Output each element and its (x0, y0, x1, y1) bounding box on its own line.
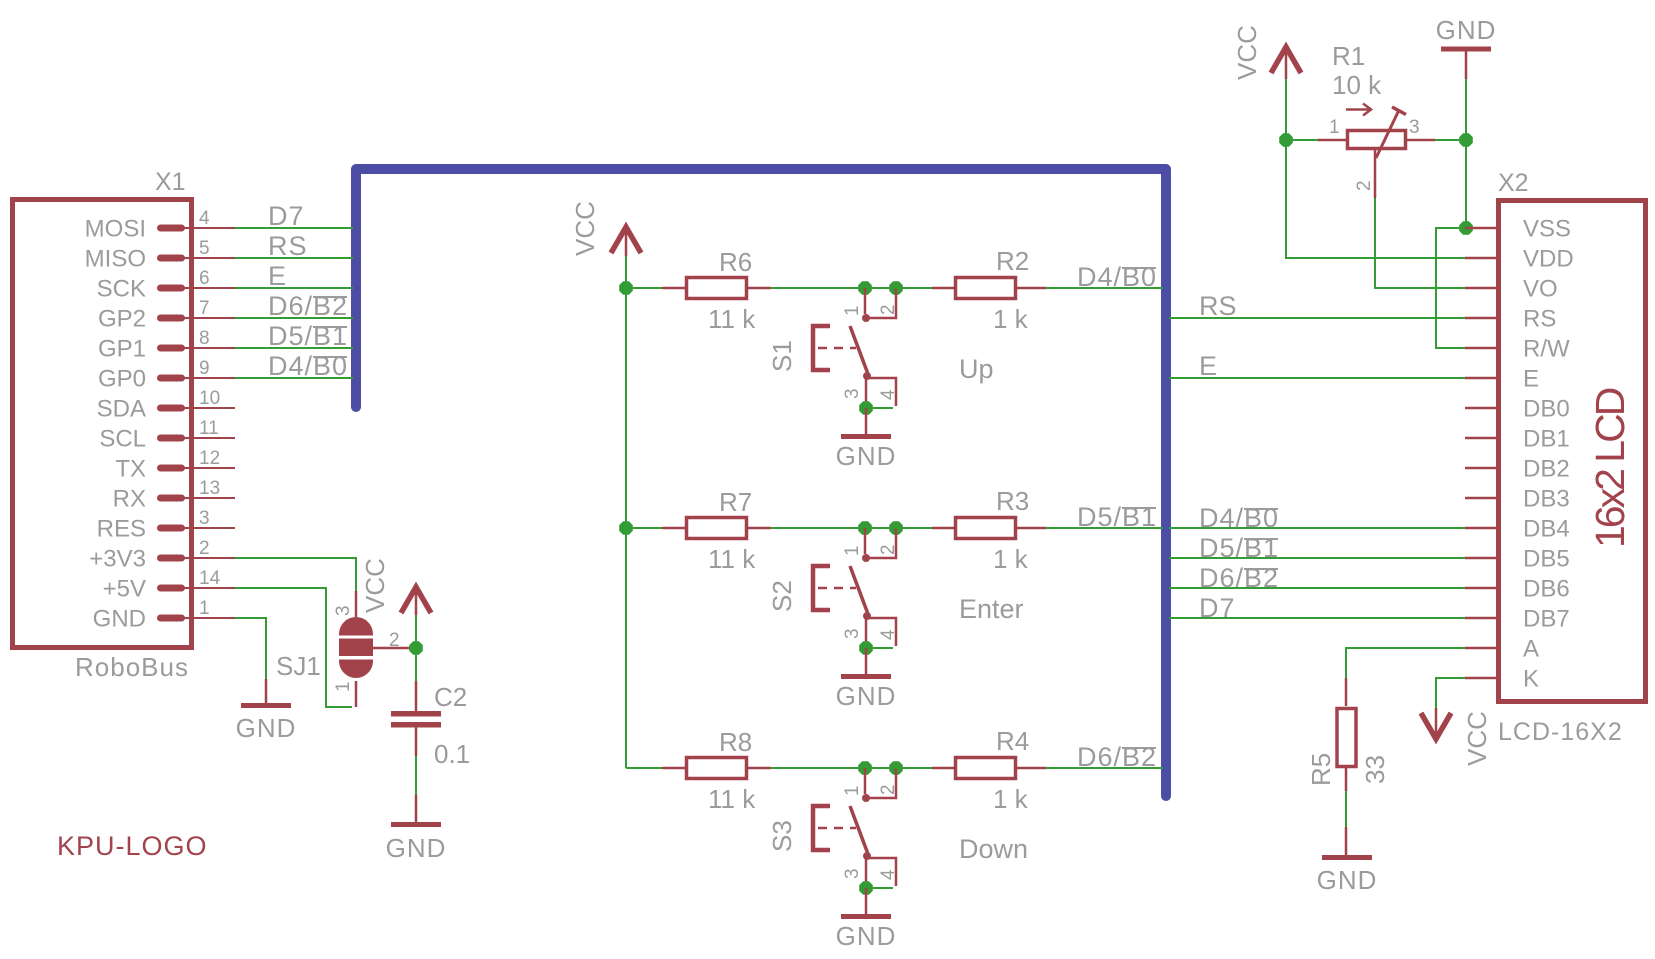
svg-text:3: 3 (1409, 117, 1420, 138)
svg-text:11 k: 11 k (708, 544, 756, 574)
wire node to C2 (415, 648, 417, 681)
junction node below S2 (859, 641, 873, 655)
wire R2 to bus net D4/B0 (1046, 287, 1163, 289)
svg-text:R8: R8 (719, 727, 752, 757)
svg-text:E: E (1199, 351, 1217, 381)
svg-text:13: 13 (199, 478, 220, 499)
wire +3V3 to SJ1 pin 3 (235, 558, 356, 591)
junction node at SJ1/C2 (409, 641, 423, 655)
ground symbol (C2) (386, 795, 447, 863)
value 0.1 of C2 (434, 739, 470, 769)
svg-text:1: 1 (842, 785, 863, 796)
switch S3 (813, 768, 896, 888)
junction node at S1 pin 2 (889, 281, 903, 295)
svg-text:16x2 LCD: 16x2 LCD (1587, 388, 1633, 548)
pin DB2 (X2) (1465, 456, 1570, 483)
power symbol VCC (button rail) (570, 201, 641, 256)
svg-text:RX: RX (113, 486, 146, 513)
wire R1 pin 3 to GND net (1435, 139, 1466, 141)
potentiometer R1 (1318, 104, 1435, 199)
wire VSS to R/W (1436, 228, 1466, 348)
label R4 (996, 726, 1029, 756)
svg-text:GND: GND (386, 833, 447, 863)
wire net E (235, 287, 353, 289)
svg-text:GND: GND (93, 606, 146, 633)
svg-text:2: 2 (878, 304, 899, 315)
value 11 k of R7 (708, 544, 756, 574)
svg-text:S2: S2 (767, 580, 797, 612)
svg-text:X1: X1 (155, 168, 186, 196)
switch S1 (813, 288, 896, 408)
svg-text:1: 1 (1329, 117, 1340, 138)
svg-text:D5/B1: D5/B1 (1077, 502, 1157, 532)
label C2 (434, 682, 467, 712)
switch S2 (813, 528, 896, 648)
svg-text:10: 10 (199, 388, 220, 409)
svg-text:3: 3 (333, 605, 354, 616)
svg-text:D6/B2: D6/B2 (1199, 563, 1279, 593)
label Enter (959, 594, 1024, 624)
power symbol VCC (contrast) (1232, 25, 1301, 80)
svg-text:2: 2 (878, 544, 899, 555)
pin K (X2) (1465, 666, 1539, 693)
svg-text:D7: D7 (268, 201, 305, 231)
pin DB3 (X2) (1465, 486, 1570, 513)
wire R5 to ground (1345, 791, 1347, 827)
resistor R7 (662, 518, 771, 539)
svg-text:DB1: DB1 (1523, 426, 1570, 453)
svg-text:LCD-16X2: LCD-16X2 (1498, 718, 1623, 746)
svg-text:9: 9 (199, 358, 210, 379)
svg-text:1: 1 (842, 545, 863, 556)
pin number 3 of S3 (842, 868, 863, 879)
svg-text:D6/B2: D6/B2 (1077, 742, 1157, 772)
pin VSS (X2) (1465, 216, 1571, 243)
wire net E (bus to LCD) (1169, 377, 1465, 379)
svg-text:TX: TX (115, 456, 146, 483)
svg-text:Down: Down (959, 834, 1028, 864)
label RoboBus (75, 652, 189, 682)
value 33 of R5 (1360, 755, 1390, 784)
pin RX (X1 pin 13) (113, 478, 235, 513)
pin number 1 of S1 (842, 305, 863, 316)
ground symbol (S1) (836, 408, 897, 471)
wire net RS (bus to LCD) (1169, 317, 1465, 319)
svg-text:3: 3 (842, 628, 863, 639)
text KPU-LOGO (57, 831, 208, 861)
wire VCC rail vertical (625, 288, 627, 768)
bus net (blue) (356, 169, 1166, 796)
svg-text:0.1: 0.1 (434, 739, 470, 769)
wire net D7 (235, 227, 353, 229)
svg-text:MOSI: MOSI (85, 216, 146, 243)
net label D7 at LCD (1199, 593, 1236, 623)
junction node at S2 pin 2 (889, 521, 903, 535)
svg-text:8: 8 (199, 328, 210, 349)
resistor R6 (662, 278, 771, 299)
svg-text:MISO: MISO (85, 246, 146, 273)
junction node at S3 pin 1 (858, 761, 872, 775)
pin MOSI (X1 pin 4) (85, 208, 235, 243)
net label D5/B1 (268, 321, 348, 351)
net label RS (1199, 291, 1237, 321)
svg-text:SCK: SCK (97, 276, 146, 303)
wire VCC to VDD (1286, 140, 1465, 258)
wire rail to R8 (626, 767, 662, 769)
svg-text:DB3: DB3 (1523, 486, 1570, 513)
net label E (268, 261, 287, 291)
label SJ1 (276, 651, 321, 681)
label R1 (1332, 41, 1365, 71)
label R7 (719, 487, 752, 517)
wire switch to R3 (896, 527, 932, 529)
svg-text:4: 4 (878, 629, 899, 640)
pin SDA (X1 pin 10) (97, 388, 235, 423)
label R5 (1306, 753, 1336, 786)
svg-text:14: 14 (199, 568, 221, 589)
resistor R2 (932, 278, 1046, 299)
svg-text:Up: Up (959, 354, 994, 384)
pin MISO (X1 pin 5) (85, 238, 235, 273)
svg-text:R1: R1 (1332, 41, 1365, 71)
junction node R1 pin 1 (1279, 133, 1293, 147)
svg-text:E: E (1523, 366, 1539, 393)
svg-text:VO: VO (1523, 276, 1558, 303)
wire switch to R4 (896, 767, 932, 769)
svg-text:GND: GND (836, 681, 897, 711)
value 11 k of R8 (708, 784, 756, 814)
pin number 4 of S3 (878, 869, 899, 880)
svg-text:3: 3 (842, 388, 863, 399)
pin number 3 of R1 (1409, 117, 1420, 138)
pin number 2 of S2 (878, 544, 899, 555)
wire switch to R2 (896, 287, 932, 289)
svg-text:4: 4 (199, 208, 210, 229)
label Up (959, 354, 994, 384)
pin RES (X1 pin 3) (97, 508, 235, 543)
svg-text:R5: R5 (1306, 753, 1336, 786)
wire K to VCC (1436, 678, 1465, 708)
svg-text:R/W: R/W (1523, 336, 1570, 363)
net label D4/B0 (1077, 262, 1157, 292)
junction node at S3 pin 2 (889, 761, 903, 775)
value 10 k of R1 (1332, 70, 1382, 100)
junction node VSS (1459, 221, 1473, 235)
pin GP1 (X1 pin 8) (98, 328, 235, 363)
power symbol VCC (backlight, pointing down) (1421, 708, 1492, 766)
svg-text:R4: R4 (996, 726, 1029, 756)
pin R/W (X2) (1465, 336, 1570, 363)
junction node rail row 2 (619, 521, 633, 535)
net label D4/B0 (268, 351, 348, 381)
svg-text:S1: S1 (767, 340, 797, 372)
connector X2 (16x2 LCD) (1499, 201, 1646, 702)
svg-text:SCL: SCL (99, 426, 146, 453)
label 16x2 LCD (1587, 388, 1633, 548)
power symbol VCC at SJ1 (360, 558, 431, 615)
svg-text:VCC: VCC (1232, 25, 1262, 80)
pin TX (X1 pin 12) (115, 448, 235, 483)
pin DB5 (X2) (1465, 546, 1570, 573)
svg-text:RS: RS (268, 231, 308, 261)
label R2 (996, 246, 1029, 276)
svg-text:+3V3: +3V3 (89, 546, 146, 573)
value 1 k of R4 (993, 784, 1029, 814)
pin number 1 of S3 (842, 785, 863, 796)
pin number 4 of S1 (878, 389, 899, 400)
svg-text:Enter: Enter (959, 594, 1024, 624)
label R6 (719, 247, 752, 277)
label R3 (996, 486, 1029, 516)
pin DB1 (X2) (1465, 426, 1570, 453)
svg-text:2: 2 (878, 784, 899, 795)
wire C2 to ground (415, 756, 417, 795)
value 1 k of R3 (993, 544, 1029, 574)
junction node below S3 (859, 881, 873, 895)
capacitor C2 (391, 681, 441, 756)
pin DB6 (X2) (1465, 576, 1570, 603)
svg-text:3: 3 (842, 868, 863, 879)
pin number 3 of SJ1 (333, 605, 354, 616)
pin VO (X2) (1465, 276, 1558, 303)
connector X1 (RoboBus) (13, 200, 192, 648)
junction node at S2 pin 1 (858, 521, 872, 535)
junction node GND net (1459, 133, 1473, 147)
svg-text:K: K (1523, 666, 1539, 693)
svg-text:R7: R7 (719, 487, 752, 517)
svg-text:GND: GND (1436, 15, 1497, 45)
svg-text:2: 2 (389, 630, 400, 651)
svg-text:SJ1: SJ1 (276, 651, 321, 681)
wire net D4/B0 (bus to LCD) (1169, 527, 1465, 529)
svg-text:D7: D7 (1199, 593, 1236, 623)
wire R3 to bus net D5/B1 (1046, 527, 1163, 529)
svg-text:RoboBus: RoboBus (75, 652, 189, 682)
wire R1 wiper to VO (1375, 198, 1465, 288)
svg-text:4: 4 (878, 869, 899, 880)
svg-text:DB0: DB0 (1523, 396, 1570, 423)
wire GND net to VSS (1465, 140, 1467, 228)
pin GND (X1 pin 1) (93, 598, 235, 633)
wire GND pin to ground symbol (235, 618, 266, 679)
pin DB4 (X2) (1465, 516, 1570, 543)
svg-text:VCC: VCC (360, 558, 390, 613)
wire VCC to node (415, 615, 417, 648)
svg-text:6: 6 (199, 268, 210, 289)
label X2 (1498, 169, 1529, 197)
net label D6/B2 (268, 291, 348, 321)
wire VCC arrow to rail (625, 256, 627, 288)
pin GP2 (X1 pin 7) (98, 298, 235, 333)
svg-text:VCC: VCC (570, 201, 600, 256)
wire net D5/B1 (bus to LCD) (1169, 557, 1465, 559)
resistor R3 (932, 518, 1046, 539)
junction node at S1 pin 1 (858, 281, 872, 295)
pin number 1 of SJ1 (333, 681, 354, 692)
svg-text:KPU-LOGO: KPU-LOGO (57, 831, 208, 861)
wire net D5/B1 (235, 347, 353, 349)
svg-text:+5V: +5V (103, 576, 146, 603)
svg-text:D5/B1: D5/B1 (1199, 533, 1279, 563)
svg-text:2: 2 (1354, 180, 1375, 191)
pin number 2 of R1 (1354, 180, 1375, 191)
svg-text:1 k: 1 k (993, 304, 1029, 334)
wire net D6/B2 (235, 317, 353, 319)
wire net D4/B0 (235, 377, 353, 379)
svg-text:1: 1 (842, 305, 863, 316)
svg-text:RS: RS (1199, 291, 1237, 321)
svg-text:R6: R6 (719, 247, 752, 277)
svg-text:DB6: DB6 (1523, 576, 1570, 603)
ground symbol (R5) (1317, 827, 1378, 895)
wire rail to R6 (626, 287, 662, 289)
label S3 (767, 820, 797, 852)
svg-text:DB4: DB4 (1523, 516, 1570, 543)
svg-text:R3: R3 (996, 486, 1029, 516)
label Down (959, 834, 1028, 864)
svg-text:DB2: DB2 (1523, 456, 1570, 483)
wire net RS (235, 257, 353, 259)
wire R4 to bus net D6/B2 (1046, 767, 1163, 769)
pin DB7 (X2) (1465, 606, 1570, 633)
svg-text:C2: C2 (434, 682, 467, 712)
svg-text:GND: GND (836, 441, 897, 471)
svg-text:11 k: 11 k (708, 304, 756, 334)
svg-text:1 k: 1 k (993, 544, 1029, 574)
svg-text:DB7: DB7 (1523, 606, 1570, 633)
svg-text:R2: R2 (996, 246, 1029, 276)
solder jumper SJ1 (339, 591, 416, 707)
svg-text:RS: RS (1523, 306, 1556, 333)
pin number 3 of S2 (842, 628, 863, 639)
svg-text:11: 11 (199, 418, 219, 439)
junction node rail row 1 (619, 281, 633, 295)
net label D6/B2 at LCD (1199, 563, 1279, 593)
svg-text:1 k: 1 k (993, 784, 1029, 814)
pin SCL (X1 pin 11) (99, 418, 235, 453)
svg-text:GP0: GP0 (98, 366, 146, 393)
ground symbol (top right) (1436, 15, 1497, 79)
svg-text:4: 4 (878, 389, 899, 400)
wire A to R5 (1346, 648, 1465, 678)
net label D5/B1 (1077, 502, 1157, 532)
label X1 (155, 168, 186, 196)
svg-text:S3: S3 (767, 820, 797, 852)
wire R6 to switch S1 (771, 287, 896, 289)
pin RS (X2) (1465, 306, 1556, 333)
ground symbol (S3) (836, 888, 897, 951)
label R8 (719, 727, 752, 757)
wire S3 pin 4 jumper (866, 887, 893, 889)
pin number 3 of S1 (842, 388, 863, 399)
net label D6/B2 (1077, 742, 1157, 772)
wire +5V to SJ1 pin 1 (235, 588, 352, 707)
svg-text:33: 33 (1360, 755, 1390, 784)
ground symbol (X1 GND) (236, 679, 297, 743)
net label D7 (268, 201, 305, 231)
pin DB0 (X2) (1465, 396, 1570, 423)
resistor R8 (662, 758, 771, 779)
svg-text:GND: GND (836, 921, 897, 951)
wire net D6/B2 (bus to LCD) (1169, 587, 1465, 589)
svg-text:RES: RES (97, 516, 146, 543)
junction node below S1 (859, 401, 873, 415)
pin +5V (X1 pin 14) (103, 568, 235, 603)
label LCD-16X2 (1498, 718, 1623, 746)
pin number 2 of S1 (878, 304, 899, 315)
pin E (X2) (1465, 366, 1539, 393)
value 1 k of R2 (993, 304, 1029, 334)
svg-text:D4/B0: D4/B0 (1199, 503, 1279, 533)
svg-text:A: A (1523, 636, 1539, 663)
ground symbol (S2) (836, 648, 897, 711)
pin SCK (X1 pin 6) (97, 268, 235, 303)
svg-text:D4/B0: D4/B0 (268, 351, 348, 381)
svg-text:1: 1 (333, 681, 354, 692)
label S2 (767, 580, 797, 612)
svg-text:VSS: VSS (1523, 216, 1571, 243)
net label D5/B1 at LCD (1199, 533, 1279, 563)
svg-text:D5/B1: D5/B1 (268, 321, 348, 351)
svg-text:2: 2 (199, 538, 210, 559)
svg-text:DB5: DB5 (1523, 546, 1570, 573)
wire VCC to R1 pin 1 (1286, 79, 1318, 140)
svg-text:12: 12 (199, 448, 220, 469)
resistor R5 (1337, 678, 1356, 791)
pin number 1 of S2 (842, 545, 863, 556)
svg-text:GP1: GP1 (98, 336, 146, 363)
net label E (1199, 351, 1217, 381)
pin GP0 (X1 pin 9) (98, 358, 235, 393)
svg-text:VCC: VCC (1462, 711, 1492, 766)
svg-text:GP2: GP2 (98, 306, 146, 333)
pin +3V3 (X1 pin 2) (89, 538, 235, 573)
svg-text:1: 1 (199, 598, 210, 619)
wire GND symbol to junction (1465, 79, 1467, 140)
pin number 2 of S3 (878, 784, 899, 795)
wire S1 pin 4 jumper (866, 407, 893, 409)
svg-text:7: 7 (199, 298, 210, 319)
pin number 1 of R1 (1329, 117, 1340, 138)
svg-text:5: 5 (199, 238, 210, 259)
svg-text:10 k: 10 k (1332, 70, 1382, 100)
pin number 4 of S2 (878, 629, 899, 640)
wire net D7 (bus to LCD) (1169, 617, 1465, 619)
pin VDD (X2) (1465, 246, 1574, 273)
net label D4/B0 at LCD (1199, 503, 1279, 533)
value 11 k of R6 (708, 304, 756, 334)
wire R8 to switch S3 (771, 767, 896, 769)
pin A (X2) (1465, 636, 1539, 663)
svg-text:D4/B0: D4/B0 (1077, 262, 1157, 292)
net label RS (268, 231, 308, 261)
wire S2 pin 4 jumper (866, 647, 893, 649)
svg-text:VDD: VDD (1523, 246, 1574, 273)
svg-text:D6/B2: D6/B2 (268, 291, 348, 321)
wire R7 to switch S2 (771, 527, 896, 529)
svg-text:E: E (268, 261, 287, 291)
svg-text:X2: X2 (1498, 169, 1529, 197)
wire rail to R7 (626, 527, 662, 529)
svg-text:GND: GND (1317, 865, 1378, 895)
svg-text:3: 3 (199, 508, 210, 529)
svg-text:SDA: SDA (97, 396, 146, 423)
resistor R4 (932, 758, 1046, 779)
svg-text:11 k: 11 k (708, 784, 756, 814)
label S1 (767, 340, 797, 372)
pin number 2 of SJ1 (389, 630, 400, 651)
svg-text:GND: GND (236, 713, 297, 743)
